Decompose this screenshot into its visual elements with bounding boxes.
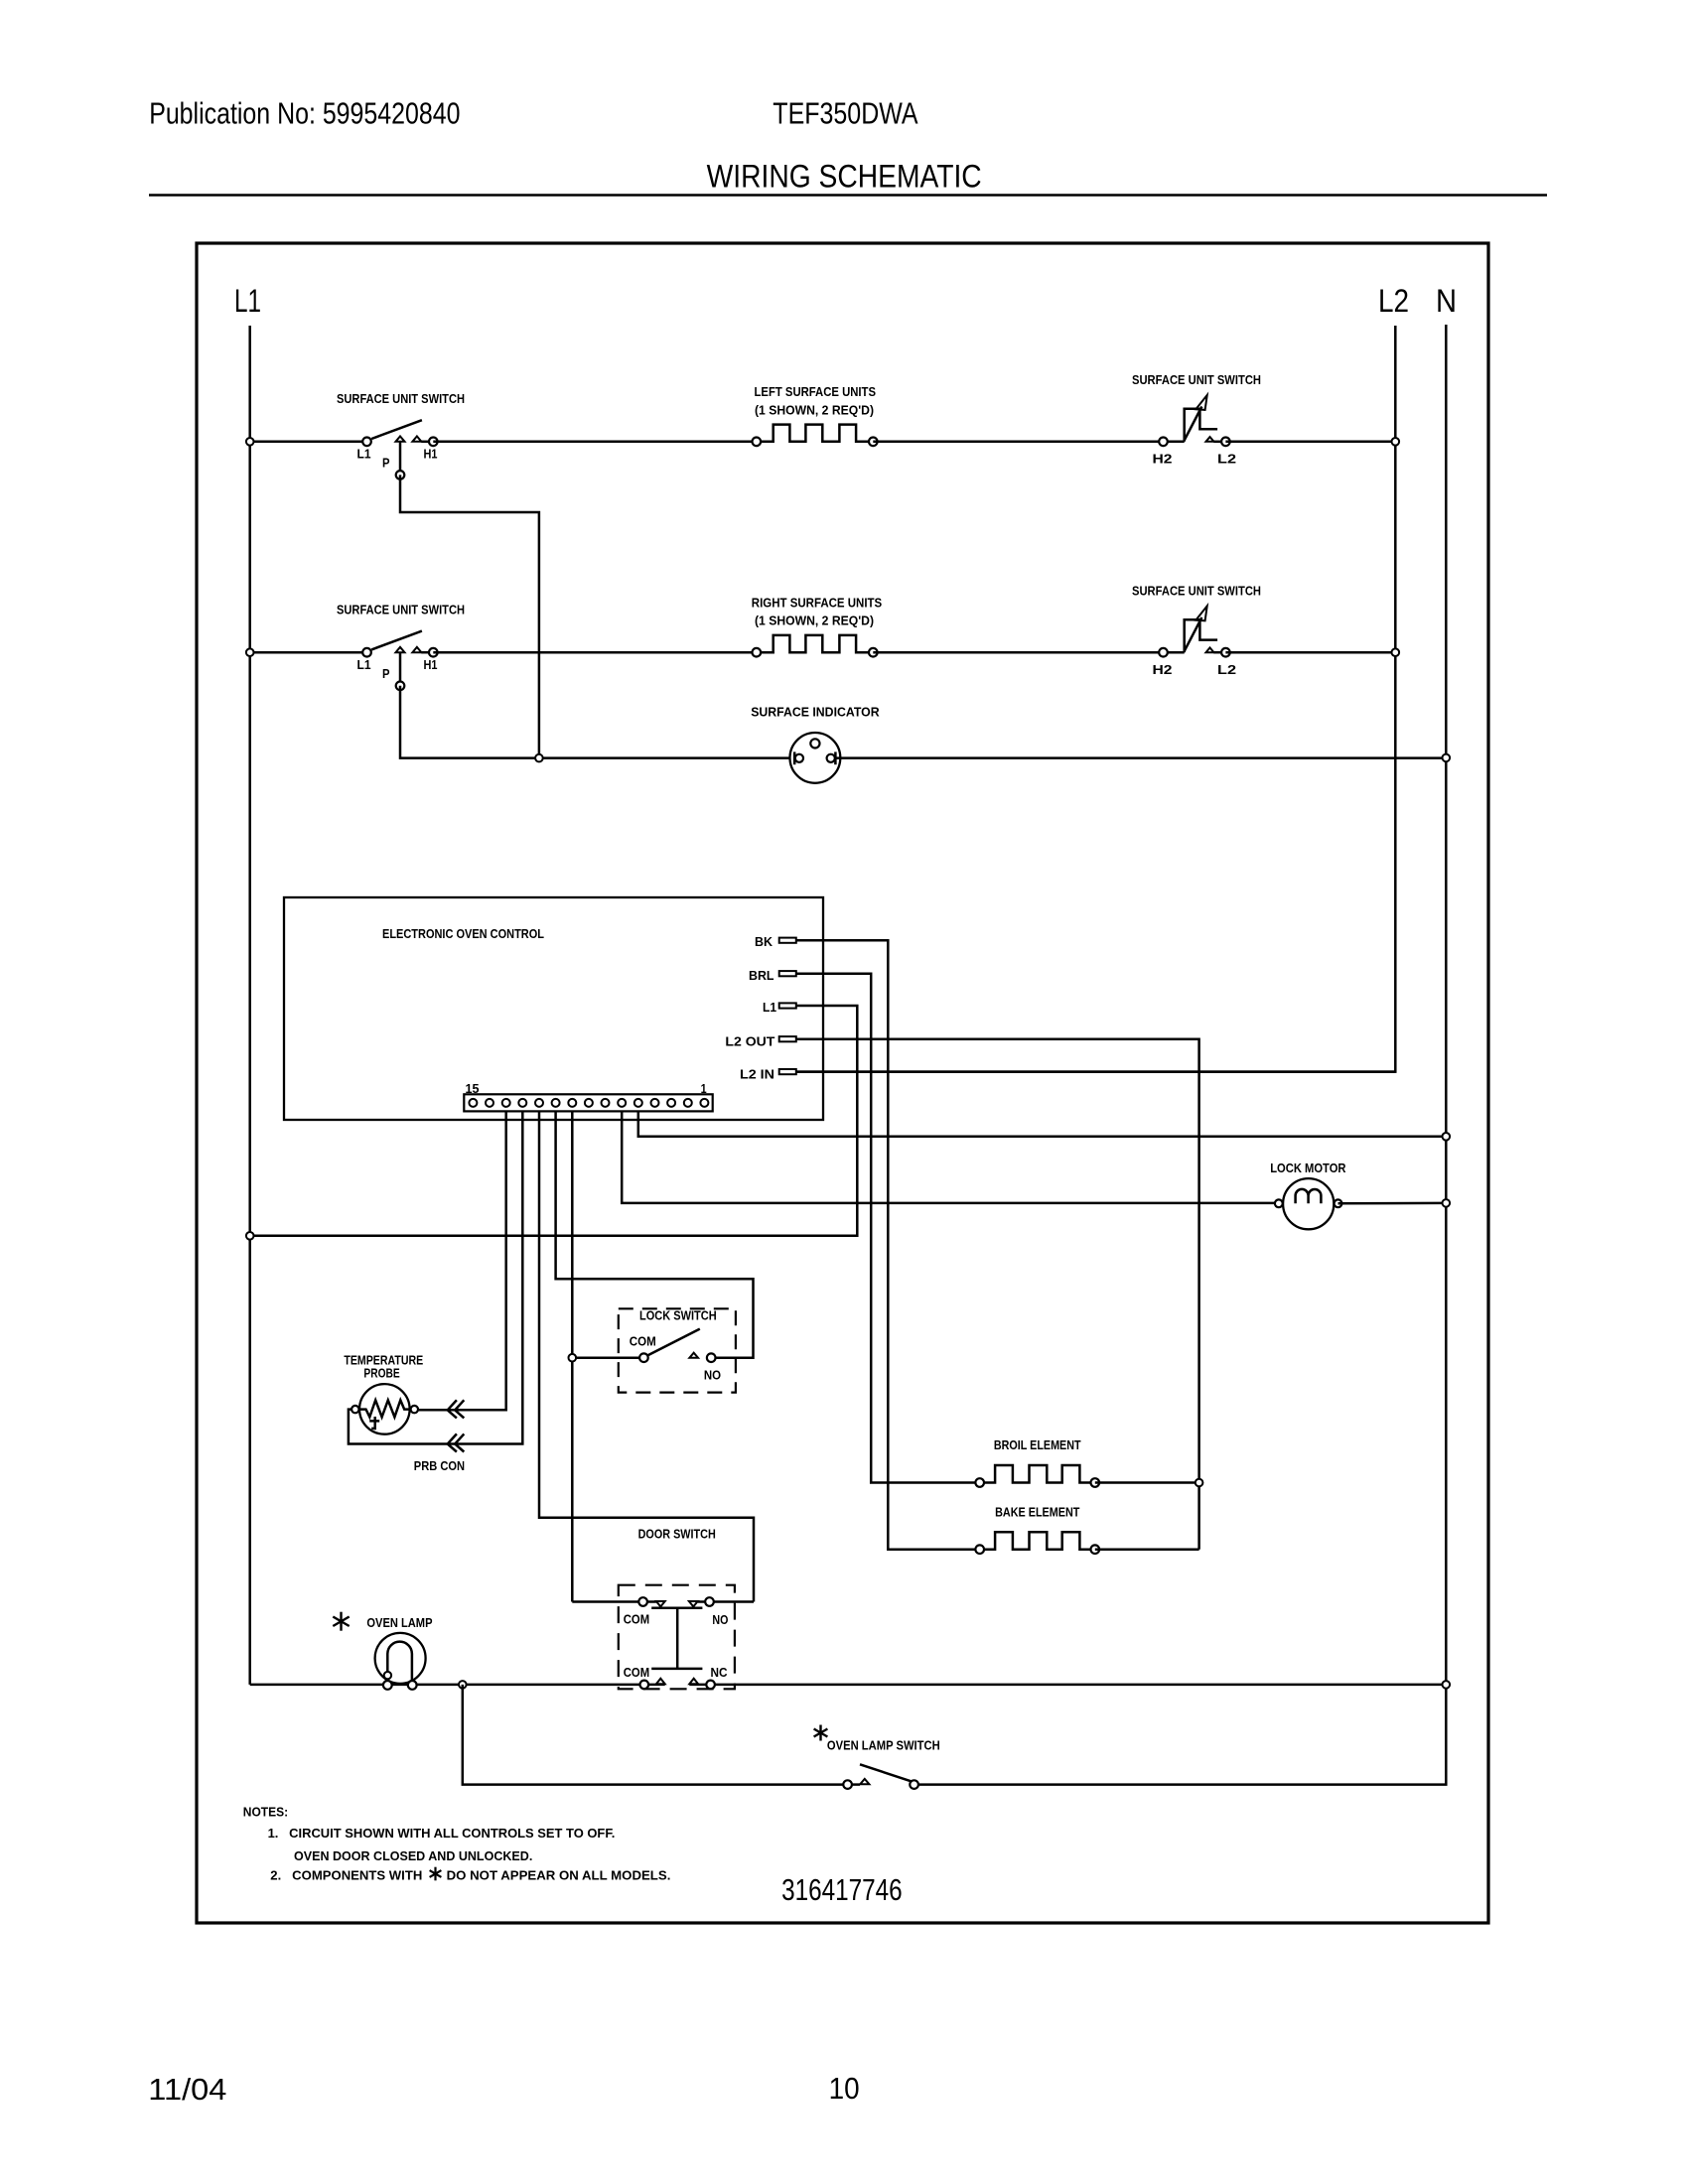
svg-text:DOOR SWITCH: DOOR SWITCH — [638, 1527, 716, 1542]
EOC tab L1 — [779, 1003, 796, 1008]
terminal element right a — [753, 648, 762, 657]
terminal H2 row1 — [1159, 438, 1168, 447]
schematic border frame — [197, 243, 1488, 1923]
surface indicator top contact — [810, 739, 819, 748]
terminal H2 row2 — [1159, 648, 1168, 657]
svg-text:L2: L2 — [1217, 452, 1236, 467]
wire pin9 to lock switch COM and door switch — [571, 1111, 574, 1601]
svg-text:H1: H1 — [424, 447, 438, 462]
EOC tab L2 OUT — [779, 1036, 796, 1041]
svg-text:SURFACE INDICATOR: SURFACE INDICATOR — [751, 704, 880, 719]
wire L2 bus vertical — [796, 326, 1396, 1072]
surface unit switch row2-left blade — [371, 631, 422, 650]
terminal element left b — [869, 438, 878, 447]
wire door NC to N bus — [689, 1684, 1446, 1687]
oven lamp switch triangle — [860, 1779, 869, 1784]
svg-text:ELECTRONIC OVEN CONTROL: ELECTRONIC OVEN CONTROL — [382, 926, 544, 941]
door switch actuator — [651, 1608, 702, 1669]
svg-text:SURFACE UNIT SWITCH: SURFACE UNIT SWITCH — [337, 603, 465, 617]
oven lamp terminal left — [383, 1681, 392, 1690]
lock switch dashed box — [619, 1308, 736, 1392]
heater element right surface units — [761, 635, 869, 652]
junction row2 at L1 bus — [246, 648, 254, 656]
svg-text:1. CIRCUIT SHOWN WITH ALL CO: 1. CIRCUIT SHOWN WITH ALL CONTROLS SET T… — [268, 1826, 616, 1841]
surface unit switch row2-left stem to P — [399, 652, 402, 681]
oven lamp body — [375, 1633, 426, 1684]
probe connector chevrons lower — [448, 1433, 465, 1451]
wire terminal to triangle — [852, 1783, 860, 1786]
broil element terminal left — [975, 1478, 984, 1487]
terminal H1 row2 — [429, 648, 438, 657]
svg-text:COM: COM — [624, 1612, 649, 1627]
wire bake to L2OUT riser — [1095, 1548, 1199, 1551]
note 2 asterisk — [434, 1867, 436, 1881]
lock motor winding — [1296, 1189, 1322, 1203]
surface unit switch row1-left stem to P — [399, 442, 402, 471]
junction row1 at L1 bus — [246, 438, 254, 446]
svg-text:OVEN LAMP SWITCH: OVEN LAMP SWITCH — [827, 1738, 940, 1753]
svg-text:OVEN DOOR CLOSED AND UNLOCKED.: OVEN DOOR CLOSED AND UNLOCKED. — [294, 1848, 532, 1863]
door switch upper COM terminal — [638, 1597, 647, 1606]
svg-text:OVEN LAMP: OVEN LAMP — [366, 1615, 432, 1630]
terminal strip pin 6 — [618, 1099, 626, 1107]
svg-text:1: 1 — [701, 1081, 707, 1096]
lock motor body — [1283, 1178, 1334, 1229]
terminal strip pin 13 — [502, 1099, 510, 1107]
lock switch triangle — [689, 1353, 698, 1358]
wire triangle to L2 terminal row1 — [1213, 441, 1225, 444]
wire EOC L1 to L1 bus — [250, 1006, 858, 1236]
svg-text:BRL: BRL — [749, 968, 774, 983]
terminal strip pin 5 — [634, 1099, 642, 1107]
wire pin13 to temperature probe — [419, 1111, 506, 1410]
junction indicator feed — [535, 754, 543, 762]
terminal strip pin 1 — [700, 1099, 708, 1107]
junction pin9 lock COM branch — [569, 1354, 577, 1362]
svg-text:COM: COM — [630, 1334, 656, 1349]
surface unit switch row2-left pole triangle H1-side — [412, 647, 421, 652]
wire triangle to NO — [698, 1600, 705, 1603]
wire lock motor to N bus — [1338, 1202, 1447, 1205]
EOC tab BRL — [779, 971, 796, 976]
wire L1 bus to row2 switch — [250, 651, 367, 654]
svg-text:L1: L1 — [357, 657, 371, 672]
terminal P row1 — [396, 471, 405, 479]
oven lamp switch asterisk — [819, 1725, 821, 1741]
temperature probe terminal right — [411, 1406, 418, 1413]
svg-text:NC: NC — [711, 1665, 729, 1680]
svg-text:LOCK SWITCH: LOCK SWITCH — [639, 1308, 717, 1323]
surface unit switch row2-right step — [1185, 619, 1217, 652]
bake element terminal left — [975, 1545, 984, 1554]
terminal strip pin 14 — [486, 1099, 493, 1107]
door switch lower triangle COM — [656, 1679, 665, 1685]
svg-text:N: N — [1436, 283, 1457, 319]
wire pin10 to lock switch NO — [556, 1111, 754, 1357]
wire element to H2 row1 — [873, 441, 1163, 444]
wire pin5 to N bus — [638, 1111, 1447, 1136]
terminal strip pin 15 — [469, 1099, 477, 1107]
svg-text:TEF350DWA: TEF350DWA — [773, 96, 918, 131]
EOC tab BK — [779, 938, 796, 943]
surface unit switch row2-right blade — [1185, 617, 1202, 651]
svg-text:L2: L2 — [1217, 662, 1236, 677]
EOC tab L2 IN — [779, 1069, 796, 1074]
svg-text:(1 SHOWN, 2 REQ'D): (1 SHOWN, 2 REQ'D) — [755, 614, 874, 628]
wire L1 bus vertical — [248, 326, 251, 1685]
wire EOC BRL to broil element — [796, 974, 976, 1483]
wire pin11 to door switch NO side — [539, 1111, 754, 1601]
svg-text:15: 15 — [466, 1081, 480, 1096]
surface unit switch row1-right triangle — [1206, 437, 1214, 442]
svg-text:DO NOT APPEAR ON ALL MODELS.: DO NOT APPEAR ON ALL MODELS. — [447, 1868, 671, 1883]
svg-text:LOCK MOTOR: LOCK MOTOR — [1270, 1160, 1346, 1175]
surface unit switch row1-right blade — [1185, 407, 1202, 441]
wire pin12 to probe return — [349, 1111, 522, 1443]
surface unit switch row2-right triangle — [1206, 647, 1214, 652]
wire N bus vertical — [918, 325, 1446, 1785]
wire EOC L2 IN stub — [796, 1070, 1396, 1073]
wire triangle to H1 terminal — [421, 441, 433, 444]
door switch upper triangle COM — [656, 1601, 665, 1606]
surface indicator left pin — [795, 754, 803, 762]
door switch lower triangle NC — [689, 1679, 698, 1685]
svg-text:H2: H2 — [1153, 452, 1173, 467]
probe connector chevrons upper — [448, 1400, 465, 1418]
door switch lower COM terminal — [640, 1681, 649, 1690]
terminal L1 row2 — [362, 648, 371, 657]
svg-text:L2 IN: L2 IN — [740, 1067, 774, 1082]
terminal H1 row1 — [429, 438, 438, 447]
svg-text:PROBE: PROBE — [363, 1365, 400, 1380]
temperature probe resistor zigzag — [359, 1400, 410, 1417]
wire pin9 branch to lock COM — [572, 1356, 639, 1359]
surface unit switch row1-left pole triangle P — [396, 436, 405, 441]
svg-text:L2: L2 — [1378, 283, 1409, 319]
svg-text:LEFT SURFACE UNITS: LEFT SURFACE UNITS — [755, 384, 877, 399]
wire H2 to switch step row1 — [1164, 441, 1185, 444]
junction lock motor at N bus — [1443, 1199, 1451, 1207]
door switch lower NC terminal — [706, 1681, 715, 1690]
wire H1 to right surface element — [433, 651, 757, 654]
oven lamp terminal right — [408, 1681, 417, 1690]
svg-text:2. COMPONENTS WITH: 2. COMPONENTS WITH — [270, 1868, 422, 1883]
door switch upper NO terminal — [705, 1597, 714, 1606]
wire row2 P to surface indicator — [400, 686, 790, 758]
svg-text:H2: H2 — [1153, 662, 1173, 677]
terminal strip pin 11 — [535, 1099, 543, 1107]
svg-text:RIGHT SURFACE UNITS: RIGHT SURFACE UNITS — [752, 596, 883, 611]
wire L1 bus bottom to door switch COM — [250, 1684, 665, 1687]
surface indicator left pin bar — [793, 751, 796, 764]
svg-text:NO: NO — [704, 1368, 721, 1383]
wire H2 to switch step row2 — [1164, 651, 1185, 654]
wire triangle to L2 terminal row2 — [1213, 651, 1225, 654]
terminal element left a — [753, 438, 762, 447]
surface unit switch row2-left pole triangle P — [396, 647, 405, 652]
terminal P row2 — [396, 682, 405, 691]
wire triangle to H1 terminal row2 — [421, 651, 433, 654]
oven lamp base contact — [384, 1672, 391, 1679]
svg-text:SURFACE UNIT SWITCH: SURFACE UNIT SWITCH — [1132, 584, 1261, 599]
svg-text:COM: COM — [624, 1665, 649, 1680]
surface indicator lamp body — [790, 733, 841, 783]
svg-text:L1: L1 — [234, 283, 261, 319]
svg-text:L1: L1 — [357, 447, 371, 462]
wire row1 P to indicator feed — [400, 475, 539, 757]
svg-text:SURFACE UNIT SWITCH: SURFACE UNIT SWITCH — [337, 391, 465, 406]
door switch dashed box — [619, 1585, 735, 1690]
heater element left surface units — [761, 425, 869, 442]
wire L2 terminal to L2 bus row1 — [1225, 441, 1395, 444]
svg-text:L1: L1 — [763, 1000, 776, 1015]
lock motor terminal right — [1335, 1199, 1342, 1207]
svg-text:BROIL ELEMENT: BROIL ELEMENT — [994, 1437, 1081, 1452]
surface unit switch row1-left blade — [371, 420, 422, 439]
terminal strip pin 8 — [585, 1099, 593, 1107]
svg-text:P: P — [382, 456, 390, 471]
terminal L2 row1 — [1221, 438, 1230, 447]
oven lamp asterisk — [340, 1612, 342, 1631]
bake element heater — [984, 1532, 1091, 1550]
wire broil to L2OUT riser — [1095, 1481, 1199, 1484]
terminal strip pin 12 — [518, 1099, 526, 1107]
svg-text:SURFACE UNIT SWITCH: SURFACE UNIT SWITCH — [1132, 372, 1261, 387]
svg-text:PRB CON: PRB CON — [414, 1458, 465, 1473]
terminal L2 row2 — [1221, 648, 1230, 657]
svg-text:NO: NO — [712, 1612, 728, 1627]
broil element heater — [984, 1465, 1091, 1483]
svg-text:P: P — [382, 666, 390, 681]
svg-text:H1: H1 — [424, 657, 438, 672]
junction row2 at L2 bus — [1392, 648, 1400, 656]
terminal strip pin 4 — [651, 1099, 659, 1107]
lock switch blade — [648, 1329, 700, 1356]
electronic oven control box — [284, 897, 823, 1120]
lock switch NO terminal — [707, 1353, 716, 1362]
junction EOC-L1 at L1 bus — [246, 1232, 254, 1240]
junction broil at L2OUT riser — [1196, 1479, 1203, 1487]
svg-text:BAKE ELEMENT: BAKE ELEMENT — [995, 1505, 1079, 1520]
wire COM to triangle — [647, 1600, 656, 1603]
terminal strip pin 7 — [602, 1099, 610, 1107]
junction oven lamp switch feed — [459, 1681, 467, 1689]
wire EOC L2 OUT to elements — [796, 1039, 1199, 1550]
oven lamp switch blade — [860, 1764, 912, 1781]
junction pin5 at N bus — [1443, 1133, 1451, 1141]
wire EOC BK to bake element — [796, 940, 976, 1549]
surface indicator right pin bar — [834, 751, 837, 764]
surface indicator right pin — [827, 754, 835, 762]
oven lamp switch left terminal — [843, 1780, 852, 1789]
broil element terminal right — [1091, 1478, 1100, 1487]
svg-text:L2 OUT: L2 OUT — [725, 1034, 774, 1049]
terminal strip pin 10 — [552, 1099, 560, 1107]
wire indicator to N bus — [835, 756, 1446, 759]
junction indicator at N bus — [1443, 754, 1451, 762]
wire L2 terminal to L2 bus row2 — [1225, 651, 1395, 654]
junction row1 at L2 bus — [1392, 438, 1400, 446]
wire pin6 to lock motor — [622, 1111, 1274, 1203]
svg-text:11/04: 11/04 — [148, 2072, 226, 2107]
wire element to H2 row2 — [873, 651, 1163, 654]
door switch upper triangle NO — [689, 1601, 698, 1606]
temperature probe body — [359, 1384, 410, 1434]
svg-text:10: 10 — [829, 2071, 860, 2106]
terminal strip pin 2 — [684, 1099, 692, 1107]
terminal strip pin 9 — [568, 1099, 576, 1107]
svg-text:WIRING SCHEMATIC: WIRING SCHEMATIC — [707, 159, 982, 195]
oven lamp switch right terminal — [910, 1780, 918, 1789]
svg-text:BK: BK — [755, 934, 774, 949]
temperature probe anchor cross — [369, 1417, 379, 1430]
title rule — [149, 194, 1547, 197]
svg-text:(1 SHOWN, 2 REQ'D): (1 SHOWN, 2 REQ'D) — [755, 403, 874, 418]
junction door lower at N bus — [1443, 1681, 1451, 1689]
svg-text:NOTES:: NOTES: — [243, 1805, 288, 1820]
surface unit switch row1-right arrowhead — [1196, 395, 1206, 410]
wire H1 to left surface element — [433, 441, 757, 444]
svg-text:Publication No: 5995420840: Publication No: 5995420840 — [149, 96, 460, 131]
door switch upper wire COM side — [572, 1600, 638, 1603]
svg-text:316417746: 316417746 — [781, 1872, 903, 1907]
surface unit switch row1-left pole triangle H1-side — [412, 436, 421, 441]
wire lamp junction to lamp switch — [463, 1685, 848, 1785]
surface unit switch row1-right step — [1185, 409, 1217, 442]
terminal element right b — [869, 648, 878, 657]
surface unit switch row2-right arrowhead — [1196, 606, 1206, 620]
terminal L1 row1 — [362, 438, 371, 447]
lock switch COM terminal — [639, 1353, 648, 1362]
EOC terminal strip — [464, 1094, 712, 1111]
lock motor terminal left — [1275, 1199, 1283, 1207]
oven lamp filament loop — [387, 1642, 412, 1684]
door switch upper wire NO side — [714, 1600, 754, 1603]
temperature probe terminal left — [352, 1406, 358, 1413]
terminal strip pin 3 — [667, 1099, 675, 1107]
wire L1 bus to row1 switch — [250, 441, 367, 444]
bake element terminal right — [1091, 1545, 1100, 1554]
